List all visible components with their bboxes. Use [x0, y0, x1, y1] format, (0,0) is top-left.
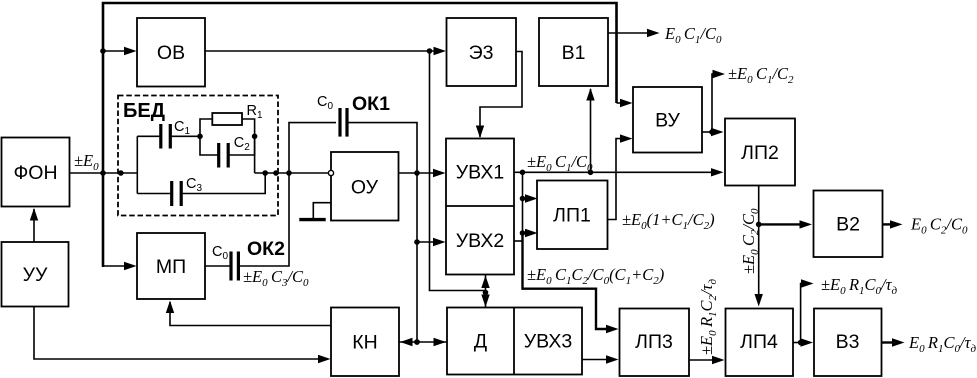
svg-text:ОВ: ОВ — [157, 42, 185, 64]
svg-text:УВХ2: УВХ2 — [456, 230, 504, 252]
svg-text:Э3: Э3 — [469, 42, 494, 64]
svg-text:ОУ: ОУ — [351, 177, 379, 199]
svg-text:±E0 C2/C0: ±E0 C2/C0 — [739, 208, 761, 274]
svg-text:В1: В1 — [562, 42, 586, 64]
svg-text:ЛП2: ЛП2 — [741, 142, 779, 164]
svg-text:ОК1: ОК1 — [352, 93, 390, 115]
svg-text:УВХ1: УВХ1 — [456, 162, 504, 184]
svg-text:УВХ3: УВХ3 — [524, 331, 572, 353]
svg-text:УУ: УУ — [23, 264, 48, 286]
svg-text:E0 C2/C0: E0 C2/C0 — [910, 215, 968, 237]
svg-text:ВУ: ВУ — [655, 110, 680, 132]
svg-text:ЛП4: ЛП4 — [740, 331, 778, 353]
svg-text:±E0 C3/C0: ±E0 C3/C0 — [243, 267, 309, 289]
svg-text:БЕД: БЕД — [123, 100, 165, 122]
svg-text:ЛП3: ЛП3 — [635, 331, 673, 353]
svg-text:ЛП1: ЛП1 — [553, 205, 591, 227]
svg-text:В2: В2 — [836, 214, 860, 236]
svg-text:±E0(1+C1/C2): ±E0(1+C1/C2) — [622, 210, 715, 232]
svg-text:Д: Д — [474, 331, 487, 353]
svg-text:В3: В3 — [836, 331, 860, 353]
svg-text:±E0 C1/C0: ±E0 C1/C0 — [527, 152, 593, 174]
svg-text:E0 C1/C0: E0 C1/C0 — [664, 24, 722, 46]
svg-text:МП: МП — [156, 256, 186, 278]
svg-text:КН: КН — [352, 332, 377, 354]
svg-text:ОК2: ОК2 — [247, 238, 285, 260]
svg-text:ФОН: ФОН — [13, 162, 57, 184]
svg-text:±E0 C1/C2: ±E0 C1/C2 — [728, 64, 794, 86]
